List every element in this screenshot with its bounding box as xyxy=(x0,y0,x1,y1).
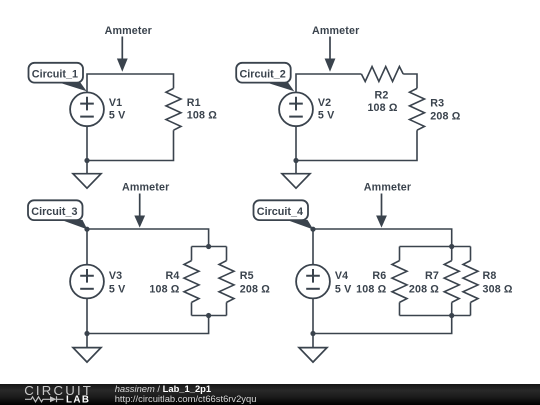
voltage source V2 xyxy=(279,92,313,126)
svg-text:V4: V4 xyxy=(335,270,348,282)
node Circuit_2 callout xyxy=(236,63,294,91)
resistor R5 xyxy=(219,261,234,303)
svg-text:Ammeter: Ammeter xyxy=(122,182,169,194)
ground C2 xyxy=(282,174,310,189)
svg-text:308 Ω: 308 Ω xyxy=(483,283,513,295)
svg-text:V2: V2 xyxy=(318,97,331,109)
logo doodle wire xyxy=(25,397,50,402)
svg-text:108 Ω: 108 Ω xyxy=(356,283,386,295)
ammeter arrow C3 xyxy=(134,194,145,228)
svg-text:208 Ω: 208 Ω xyxy=(409,283,439,295)
svg-text:R8: R8 xyxy=(483,270,497,282)
node C4 parallel bottom junction xyxy=(449,313,454,318)
wire C4 bottom: node to V4 minus xyxy=(313,298,452,333)
svg-text:LAB: LAB xyxy=(66,394,90,405)
svg-text:5 V: 5 V xyxy=(109,283,126,295)
voltage source V1 xyxy=(70,92,104,126)
wire R4 bottom lead xyxy=(191,302,193,315)
ground C4 xyxy=(299,348,327,363)
wire C2 bottom: R3 to V2 minus xyxy=(296,126,417,160)
logo doodle diode xyxy=(50,396,57,402)
voltage source V4 xyxy=(296,265,330,299)
resistor R7 xyxy=(444,261,459,303)
svg-text:Ammeter: Ammeter xyxy=(312,25,359,37)
svg-text:V1: V1 xyxy=(109,97,122,109)
resistor R1 xyxy=(166,88,181,130)
wire C3 top bar xyxy=(192,246,227,248)
footer title line xyxy=(115,384,211,393)
svg-text:Ammeter: Ammeter xyxy=(364,182,411,194)
resistor R4 xyxy=(184,261,199,303)
node C3 top-left corner junction xyxy=(84,227,89,232)
footer url line xyxy=(115,394,257,403)
resistor R6 xyxy=(392,261,407,303)
svg-text:R2: R2 xyxy=(375,89,389,101)
wire C1 top: V1 plus to R1 xyxy=(87,74,174,93)
wire C3 top: V3 plus to parallel node xyxy=(87,229,209,265)
resistor R2 xyxy=(361,67,403,82)
wire R5 top lead xyxy=(226,247,228,261)
svg-text:108 Ω: 108 Ω xyxy=(367,102,397,114)
wire C2 top: V2 plus to R2 xyxy=(296,74,361,93)
resistor R8 xyxy=(463,261,478,303)
node C1 bottom junction xyxy=(84,158,89,163)
svg-text:V3: V3 xyxy=(109,270,122,282)
wire C4 top bar xyxy=(400,246,471,248)
ground C1 xyxy=(73,174,101,189)
wire R8 bottom lead xyxy=(470,302,472,315)
svg-text:5 V: 5 V xyxy=(335,283,352,295)
svg-text:R4: R4 xyxy=(166,270,180,282)
wire C1 bottom: R1 to V1 minus xyxy=(87,126,174,160)
wire C1 ground stub xyxy=(86,161,88,174)
svg-text:5 V: 5 V xyxy=(109,110,126,122)
svg-text:Circuit_3: Circuit_3 xyxy=(31,206,77,218)
footer bar xyxy=(0,384,540,405)
node C3 parallel bottom junction xyxy=(206,313,211,318)
wire C3 bottom bar xyxy=(192,315,227,317)
node C2 bottom junction xyxy=(293,158,298,163)
wire C4 bottom bar xyxy=(400,315,471,317)
svg-text:Circuit_2: Circuit_2 xyxy=(240,68,286,80)
wire R6 top lead xyxy=(399,247,401,261)
voltage source V3 xyxy=(70,265,104,299)
wire R6 bottom lead xyxy=(399,302,401,315)
svg-text:208 Ω: 208 Ω xyxy=(240,283,270,295)
ammeter arrow C1 xyxy=(117,37,128,72)
svg-text:R1: R1 xyxy=(187,97,201,109)
svg-text:Circuit_1: Circuit_1 xyxy=(32,68,78,80)
node C4 parallel top junction xyxy=(449,244,454,249)
node Circuit_1 callout xyxy=(29,63,87,91)
wire R7 top lead xyxy=(451,247,453,261)
svg-text:108 Ω: 108 Ω xyxy=(187,110,217,122)
svg-text:208 Ω: 208 Ω xyxy=(430,111,460,123)
wire R8 top lead xyxy=(470,247,472,261)
ammeter arrow C2 xyxy=(325,37,336,72)
svg-text:Circuit_4: Circuit_4 xyxy=(257,206,303,218)
wire C3 bottom: node to V3 minus xyxy=(87,298,209,333)
svg-text:R7: R7 xyxy=(425,270,439,282)
svg-text:108 Ω: 108 Ω xyxy=(149,283,179,295)
node C3 bottom junction xyxy=(84,331,89,336)
svg-text:R6: R6 xyxy=(372,270,386,282)
ground C3 xyxy=(73,348,101,363)
wire R4 top lead xyxy=(191,247,193,261)
svg-text:Ammeter: Ammeter xyxy=(105,25,152,37)
wire R5 bottom lead xyxy=(226,302,228,315)
wire C3 ground stub xyxy=(86,334,88,348)
wire R7 bottom lead xyxy=(451,302,453,315)
wire C4 top: V4 plus to parallel node xyxy=(313,229,452,265)
resistor R3 xyxy=(410,88,425,130)
wire C2 ground stub xyxy=(295,161,297,174)
node C4 bottom junction xyxy=(310,331,315,336)
CircuitLab logo wordmark xyxy=(0,384,110,405)
ammeter arrow C4 xyxy=(376,194,387,228)
svg-text:R5: R5 xyxy=(240,270,254,282)
node Circuit_4 callout xyxy=(254,200,314,229)
svg-text:R3: R3 xyxy=(430,98,444,110)
node Circuit_3 callout xyxy=(28,200,87,229)
node C4 top-left corner junction xyxy=(310,227,315,232)
wire C4 ground stub xyxy=(312,334,314,348)
node C3 parallel top junction xyxy=(206,244,211,249)
wire R2 to R3 xyxy=(403,74,417,88)
svg-text:5 V: 5 V xyxy=(318,110,335,122)
